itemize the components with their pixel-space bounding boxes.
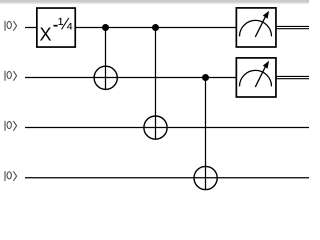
svg-text:¼: ¼ bbox=[58, 15, 73, 34]
svg-text:X: X bbox=[40, 25, 52, 45]
